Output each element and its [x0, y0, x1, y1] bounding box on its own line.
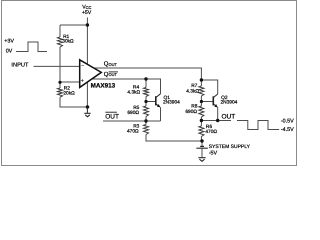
- svg-text:R3: R3: [133, 123, 139, 129]
- svg-text:+5V: +5V: [82, 10, 92, 16]
- svg-text:2N3904: 2N3904: [163, 100, 180, 106]
- svg-text:2N3904: 2N3904: [221, 100, 238, 106]
- svg-text:R5: R5: [133, 105, 139, 111]
- svg-text:INPUT: INPUT: [11, 63, 29, 69]
- svg-text:OUT: OUT: [105, 114, 119, 121]
- svg-text:0V: 0V: [6, 48, 13, 54]
- svg-text:4.3kΩ: 4.3kΩ: [127, 90, 140, 96]
- svg-text:470Ω: 470Ω: [205, 129, 217, 135]
- svg-text:SYSTEM SUPPLY: SYSTEM SUPPLY: [209, 144, 251, 150]
- svg-text:R7: R7: [191, 83, 197, 89]
- svg-text:690Ω: 690Ω: [127, 110, 139, 116]
- svg-text:QOUT: QOUT: [104, 60, 118, 67]
- svg-text:690Ω: 690Ω: [185, 109, 197, 115]
- svg-text:−: −: [81, 64, 85, 70]
- svg-text:+3V: +3V: [4, 38, 14, 44]
- svg-text:-4.5V: -4.5V: [281, 127, 294, 133]
- svg-text:R4: R4: [133, 85, 139, 91]
- svg-text:4.3kΩ: 4.3kΩ: [186, 88, 199, 94]
- svg-text:MAX913: MAX913: [91, 83, 116, 90]
- svg-text:470Ω: 470Ω: [127, 128, 139, 134]
- svg-text:-5V: -5V: [209, 150, 218, 156]
- svg-text:30kΩ: 30kΩ: [62, 39, 74, 45]
- svg-text:-0.5V: -0.5V: [281, 118, 294, 124]
- svg-text:+: +: [81, 78, 85, 84]
- svg-text:20kΩ: 20kΩ: [63, 90, 75, 96]
- svg-text:R8: R8: [191, 104, 197, 110]
- svg-text:OUT: OUT: [222, 114, 236, 121]
